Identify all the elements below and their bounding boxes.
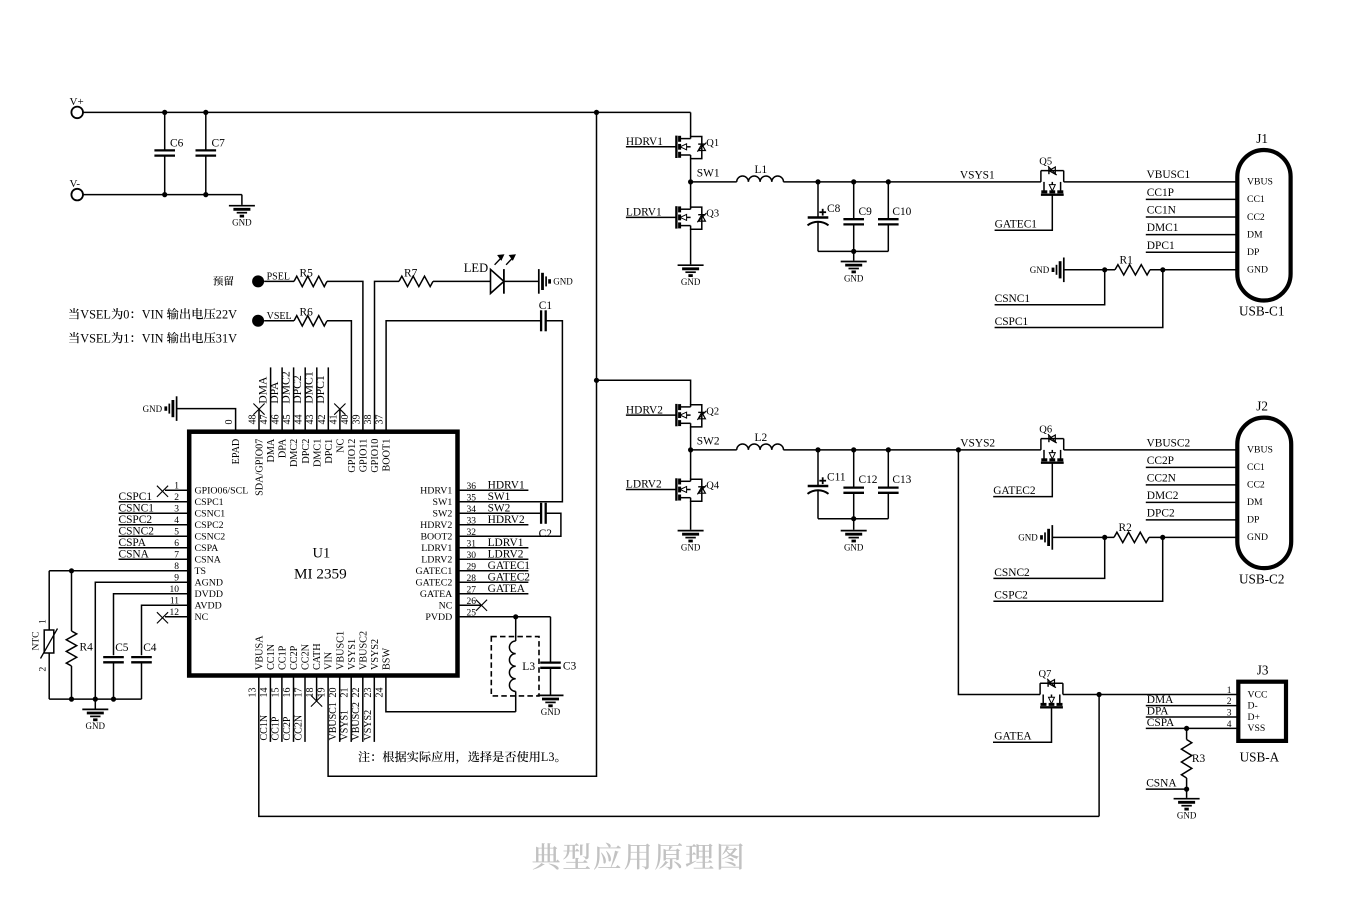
svg-text:41: 41 <box>328 415 339 425</box>
text VSEL note line2 <box>69 332 79 343</box>
IC U1 inner pin names bottom <box>254 631 392 670</box>
wire/net LDRV1 pin 31 <box>458 537 529 549</box>
wire R7 to LED <box>433 280 491 282</box>
wire/net DPA to J3 <box>1146 706 1239 718</box>
ground (LED) <box>539 269 573 294</box>
ground (EPAD) <box>143 396 177 421</box>
wire Q6 gate GATEC2 <box>993 463 1052 497</box>
svg-text:VIN: VIN <box>142 331 164 345</box>
svg-text:GND: GND <box>541 707 561 717</box>
wire/net GATEC2 pin 28 <box>458 572 531 584</box>
ground (J2 GND net) <box>1018 525 1052 550</box>
wire/net CSNA pin 7 <box>119 548 190 560</box>
svg-text:VSYS1: VSYS1 <box>960 169 995 181</box>
pin 26 NC stub with no-connect X <box>458 600 488 611</box>
svg-text:22V: 22V <box>216 307 237 321</box>
svg-text:VSEL: VSEL <box>80 307 111 321</box>
svg-text:Q7: Q7 <box>1039 669 1052 680</box>
svg-text:DPA: DPA <box>278 438 289 458</box>
wire LED to ground <box>504 280 539 282</box>
svg-text:BOOT2: BOOT2 <box>420 532 452 543</box>
ground (input filter) <box>229 195 255 228</box>
svg-text:HDRV1: HDRV1 <box>626 136 663 148</box>
svg-text:SW1: SW1 <box>488 491 511 503</box>
svg-text:CC1P: CC1P <box>270 716 281 740</box>
connector J2 USB-C2 <box>1237 399 1291 587</box>
svg-text:47: 47 <box>259 415 270 425</box>
svg-text:10: 10 <box>170 585 180 595</box>
svg-text:11: 11 <box>170 597 179 607</box>
transistor Q6 load switch <box>1039 424 1063 462</box>
wire Q1 source to SW1 <box>690 159 692 182</box>
svg-text:Q5: Q5 <box>1039 156 1052 167</box>
svg-text:VBUSC2: VBUSC2 <box>351 702 362 740</box>
svg-text:18: 18 <box>305 688 316 698</box>
svg-text:CSNC1: CSNC1 <box>119 502 155 514</box>
svg-text:C1: C1 <box>539 300 553 312</box>
node junction <box>886 179 891 184</box>
connector J1 USB-C1 <box>1237 131 1290 319</box>
svg-text:26: 26 <box>467 597 477 607</box>
svg-text:36: 36 <box>467 482 477 492</box>
wire V+ to Q1 drain <box>690 112 692 136</box>
svg-text:CC2P: CC2P <box>282 716 293 740</box>
svg-text:LDRV2: LDRV2 <box>421 555 452 566</box>
svg-text:J1: J1 <box>1256 131 1268 146</box>
wire V- rail <box>83 194 242 196</box>
wire TS pin 8 <box>49 570 189 572</box>
IC U1 inner pin names right <box>416 486 454 624</box>
svg-text:1: 1 <box>123 331 129 345</box>
svg-text:GATEA: GATEA <box>994 731 1032 743</box>
capacitor C4 <box>131 642 157 699</box>
wire/net CSPC1 pin 2 <box>119 491 190 503</box>
inductor L1 <box>737 164 784 182</box>
svg-text:CC1N: CC1N <box>1147 205 1176 217</box>
svg-text:C10: C10 <box>892 206 911 218</box>
svg-text:42: 42 <box>317 415 328 425</box>
svg-text:GATEC1: GATEC1 <box>416 566 453 577</box>
svg-text:SW2: SW2 <box>433 509 453 520</box>
svg-text:CSPC2: CSPC2 <box>119 514 153 526</box>
resistor R5 <box>294 267 327 286</box>
svg-text:CATH: CATH <box>312 643 323 670</box>
text title 典型应用原理图 <box>532 843 559 869</box>
svg-text:Q3: Q3 <box>706 209 719 220</box>
svg-text:4: 4 <box>174 516 179 526</box>
svg-text:R5: R5 <box>300 267 314 279</box>
svg-text:NC: NC <box>195 612 209 623</box>
svg-text:VSYS2: VSYS2 <box>960 437 995 449</box>
svg-text:TS: TS <box>195 566 207 577</box>
svg-text:33: 33 <box>467 516 477 526</box>
wire VBUSC1 to J1 <box>1064 181 1238 183</box>
svg-text:12: 12 <box>170 608 180 618</box>
wire R1 to J1 GND <box>1150 269 1237 271</box>
svg-text:CSPC2: CSPC2 <box>195 520 224 531</box>
svg-text:GATEC1: GATEC1 <box>995 219 1038 231</box>
svg-text:CSPA: CSPA <box>119 537 147 549</box>
node SW1 <box>688 167 720 184</box>
wire/net DMC2 pin 45 <box>279 367 293 431</box>
svg-text:45: 45 <box>282 415 293 425</box>
svg-text:DMC1: DMC1 <box>1147 222 1179 234</box>
terminal V+ <box>70 96 84 118</box>
wire VSEL to R6 <box>264 320 294 322</box>
pin 18 CATH stub with no-connect X <box>311 676 322 707</box>
wire pin38 to R7 <box>375 281 400 431</box>
text 预留 <box>213 276 223 286</box>
svg-text:DPC2: DPC2 <box>1147 508 1175 520</box>
wire/net CC1N pin 14 <box>259 676 271 742</box>
svg-text:USB-C2: USB-C2 <box>1239 572 1284 587</box>
capacitor C2 <box>539 503 553 540</box>
svg-text:43: 43 <box>305 415 316 425</box>
svg-text:1: 1 <box>1227 686 1232 696</box>
node: junction dots C6 <box>162 110 167 115</box>
svg-text:DPA: DPA <box>1147 706 1170 718</box>
wire/net CSNC1 <box>995 270 1105 305</box>
connector J3 USB-A <box>1227 662 1286 764</box>
pin 41 NC stub with no-connect X <box>334 404 345 432</box>
wire/net DMA pin 47 <box>256 367 270 431</box>
svg-text:GATEA: GATEA <box>488 583 526 595</box>
wire VBUSA pin 13 <box>259 676 1099 817</box>
svg-text:GATEC2: GATEC2 <box>416 578 453 589</box>
svg-text:LED: LED <box>464 261 488 275</box>
wire AVDD pin 11 <box>142 605 190 655</box>
wire/net CC2N to J2 <box>1146 473 1238 485</box>
transistor Q7 load switch <box>1039 669 1063 707</box>
wire/net DMC1 to J1 <box>1146 222 1238 234</box>
wire R2 to J2 GND <box>1149 536 1237 538</box>
svg-text:31V: 31V <box>216 331 237 345</box>
svg-text:DMC2: DMC2 <box>1147 490 1179 502</box>
wire/net CC2N pin 17 <box>294 676 306 742</box>
svg-text:1: 1 <box>174 482 179 492</box>
svg-text:C6: C6 <box>170 138 184 150</box>
svg-text:22: 22 <box>351 688 362 698</box>
node VSEL <box>252 311 292 327</box>
svg-text:40: 40 <box>340 415 351 425</box>
node SW2 <box>688 435 720 452</box>
svg-text:VCC: VCC <box>1248 689 1268 700</box>
svg-text:VBUSA: VBUSA <box>254 635 265 670</box>
ground (J1 GND net) <box>1030 258 1064 283</box>
wire VBUSA riser <box>1098 695 1100 817</box>
svg-text:19: 19 <box>317 688 328 698</box>
svg-text:24: 24 <box>374 688 385 698</box>
svg-text:VIN: VIN <box>142 307 164 321</box>
svg-text:VSEL: VSEL <box>80 331 111 345</box>
svg-text:R3: R3 <box>1192 753 1206 765</box>
svg-text:CC1P: CC1P <box>278 645 289 670</box>
wire C2 to BOOT2 pin32 <box>458 513 561 536</box>
wire/net GATEC1 pin 29 <box>458 560 531 572</box>
wire SW2 to L2 <box>691 449 737 451</box>
resistor R6 <box>294 307 327 326</box>
wire/net CSNA <box>1146 778 1189 792</box>
wire/net CSNC2 pin 5 <box>119 525 190 537</box>
svg-text:DPC1: DPC1 <box>324 439 335 464</box>
capacitor C12 <box>843 450 877 519</box>
text note about L3 <box>358 751 369 762</box>
wire L2 to VSYS2 rail <box>783 449 1041 451</box>
transistor Q1 <box>626 136 677 148</box>
node junction R4 <box>69 568 74 573</box>
wire VBUSC2 to J2 <box>1064 449 1238 451</box>
svg-text:30: 30 <box>467 551 477 561</box>
svg-text:HDRV2: HDRV2 <box>488 514 525 526</box>
wire/net CSPC1 <box>995 270 1163 328</box>
svg-text:29: 29 <box>467 562 477 572</box>
text VSEL note line1 <box>69 308 79 319</box>
capacitor C13 <box>878 450 912 519</box>
svg-text:CC1N: CC1N <box>266 643 277 670</box>
wire/net CSPC2 pin 4 <box>119 514 190 526</box>
svg-text:GND: GND <box>1030 265 1050 275</box>
svg-text:C11: C11 <box>827 471 846 483</box>
svg-text:GND: GND <box>143 404 163 414</box>
svg-text:28: 28 <box>467 574 477 584</box>
svg-text:BOOT1: BOOT1 <box>382 439 393 472</box>
wire DVDD pin 10 <box>114 594 190 655</box>
svg-text:NC: NC <box>439 601 453 612</box>
wire/net SW2 pin 34 <box>488 503 511 515</box>
svg-text:17: 17 <box>294 688 305 698</box>
svg-text:34: 34 <box>467 505 477 515</box>
wire/net VBUSC2 pin 22 <box>351 676 363 742</box>
capacitor C11 <box>808 450 846 519</box>
wire/net DPC1 to J1 <box>1146 240 1238 252</box>
svg-text:C3: C3 <box>563 661 577 673</box>
svg-text:LDRV1: LDRV1 <box>421 543 452 554</box>
svg-text:CC2P: CC2P <box>289 645 300 670</box>
svg-text:VSS: VSS <box>1248 723 1266 734</box>
svg-text:48: 48 <box>248 415 259 425</box>
wire/net DPC1 pin 42 <box>314 367 328 431</box>
svg-text:GATEC2: GATEC2 <box>488 572 531 584</box>
svg-text:DPC1: DPC1 <box>314 375 327 404</box>
wire output cap ground rail ch1 <box>818 250 888 252</box>
LED D1 <box>464 255 515 294</box>
svg-text:C5: C5 <box>115 642 129 654</box>
node: junction dots C7 <box>203 110 208 115</box>
wire VSYS2 down to Q7 <box>958 450 1040 695</box>
svg-text:GPIO10: GPIO10 <box>370 439 381 473</box>
svg-text:VBUS: VBUS <box>1247 445 1273 456</box>
svg-text:R6: R6 <box>300 307 314 319</box>
wire/net DPC2 to J2 <box>1146 508 1238 520</box>
node junction <box>851 179 856 184</box>
resistor R3 <box>1181 726 1205 789</box>
svg-text:LDRV1: LDRV1 <box>626 207 662 219</box>
wire/net HDRV2 pin 33 <box>458 514 529 526</box>
svg-text:38: 38 <box>363 415 374 425</box>
capacitor C8 <box>808 182 841 252</box>
svg-text:Q4: Q4 <box>706 481 720 492</box>
node junction <box>93 697 98 702</box>
wire output cap ground rail ch2 <box>818 518 888 520</box>
ground (analog) <box>82 699 108 731</box>
svg-text:LDRV2: LDRV2 <box>488 549 524 561</box>
wire/net CC1P to J1 <box>1146 187 1238 199</box>
wire/net CSPA to J3 <box>1146 717 1239 729</box>
svg-text:GND: GND <box>1177 811 1197 821</box>
svg-text:GND: GND <box>844 542 864 552</box>
svg-text:D+: D+ <box>1248 712 1260 723</box>
svg-text:35: 35 <box>467 493 477 503</box>
wire pin37 to C1 <box>386 321 541 432</box>
svg-text:31: 31 <box>467 539 477 549</box>
svg-text:DMA: DMA <box>266 438 277 462</box>
wire/net GATEA pin 27 <box>458 583 529 595</box>
svg-text:0: 0 <box>224 420 235 425</box>
IC U1 inner pin names left <box>195 486 249 624</box>
wire V+ branch to Q2 drain <box>597 380 691 405</box>
pin 12 NC stub with no-connect X <box>157 612 189 623</box>
ground (R3/CSNA) <box>1174 789 1200 820</box>
svg-text:CC1P: CC1P <box>1147 187 1174 199</box>
svg-text:C13: C13 <box>892 474 911 486</box>
IC U1 MI2359 <box>189 432 457 676</box>
svg-text:DPC2: DPC2 <box>301 439 312 464</box>
svg-text:CSPC1: CSPC1 <box>195 497 224 508</box>
node junction <box>851 249 856 254</box>
wire/net VSYS1 pin 21 <box>340 676 352 742</box>
svg-text:GND: GND <box>86 721 106 731</box>
svg-text:VSYS2: VSYS2 <box>363 710 374 741</box>
svg-text:C9: C9 <box>859 206 873 218</box>
wire SW1 to L1 <box>691 181 737 183</box>
svg-text:CSNC2: CSNC2 <box>119 525 155 537</box>
svg-text:EPAD: EPAD <box>231 439 242 465</box>
svg-text:37: 37 <box>375 415 386 425</box>
svg-text:27: 27 <box>467 585 477 595</box>
wire SW2 to Q4 drain <box>690 450 692 480</box>
wire ground to R1 <box>1064 269 1115 271</box>
svg-text:R2: R2 <box>1119 522 1133 534</box>
svg-text:0: 0 <box>123 307 129 321</box>
wire AGND pin 9 <box>95 582 189 699</box>
svg-text:21: 21 <box>340 688 351 698</box>
node junction <box>851 447 856 452</box>
svg-text:GATEA: GATEA <box>420 589 453 600</box>
transistor Q4 <box>626 479 677 491</box>
svg-text:CSNC2: CSNC2 <box>994 567 1030 579</box>
svg-text:AVDD: AVDD <box>195 601 222 612</box>
terminal V- <box>70 178 83 200</box>
pin 0 EPAD to ground <box>177 409 236 432</box>
pin 1 GPIO06/SCL stub with no-connect X <box>157 486 189 497</box>
ground (Q3) <box>678 265 704 287</box>
wire/net CC2P to J2 <box>1146 455 1238 467</box>
svg-text:CSPC1: CSPC1 <box>995 316 1029 328</box>
node PSEL <box>252 272 290 288</box>
svg-text:2: 2 <box>39 667 49 672</box>
svg-text:GATEC1: GATEC1 <box>488 560 531 572</box>
wire Q2 source to SW2 <box>690 427 692 450</box>
svg-text:Q6: Q6 <box>1039 424 1052 435</box>
svg-text:2: 2 <box>174 493 179 503</box>
svg-text:L3: L3 <box>522 661 535 673</box>
capacitor C7 <box>196 112 226 194</box>
svg-text:Q2: Q2 <box>706 406 719 417</box>
svg-text:44: 44 <box>294 415 305 425</box>
svg-text:HDRV2: HDRV2 <box>626 404 663 416</box>
svg-text:23: 23 <box>363 688 374 698</box>
wire/net LDRV2 pin 30 <box>458 549 529 561</box>
svg-text:15: 15 <box>270 688 281 698</box>
svg-text:46: 46 <box>271 415 282 425</box>
svg-text:CSNC1: CSNC1 <box>195 509 226 520</box>
inductor L3 (optional, dashed box) <box>491 617 539 712</box>
svg-text:GND: GND <box>1018 533 1038 543</box>
wire ground to R2 <box>1052 536 1114 538</box>
svg-text:14: 14 <box>259 688 270 698</box>
capacitor C10 <box>878 182 912 252</box>
wire/net CSPA pin 6 <box>119 537 190 549</box>
svg-text:CC2N: CC2N <box>1147 473 1176 485</box>
svg-text:C7: C7 <box>212 138 226 150</box>
svg-text:SDA/GPIO07: SDA/GPIO07 <box>255 439 266 496</box>
svg-text:R1: R1 <box>1120 254 1134 266</box>
svg-text:SW1: SW1 <box>697 167 720 179</box>
resistor R1 <box>1115 254 1150 275</box>
svg-text:GND: GND <box>681 277 701 287</box>
svg-text:C2: C2 <box>539 528 553 540</box>
svg-text:HDRV1: HDRV1 <box>488 480 525 492</box>
capacitor C5 <box>103 642 129 699</box>
wire/net SW1 pin 35 <box>488 491 511 503</box>
svg-text:GPIO11: GPIO11 <box>359 439 370 473</box>
wire pin34 to C2 <box>458 512 542 514</box>
svg-text:SW2: SW2 <box>488 503 511 515</box>
wire/net VBUSC1 pin 20 <box>328 676 340 742</box>
svg-text:R4: R4 <box>80 642 94 654</box>
svg-text:CC2N: CC2N <box>301 643 312 670</box>
svg-text:SW2: SW2 <box>697 435 720 447</box>
capacitor C3 <box>540 617 576 695</box>
svg-text:VBUSC1: VBUSC1 <box>1147 169 1191 181</box>
svg-text:DMC2: DMC2 <box>289 439 300 467</box>
svg-text:J3: J3 <box>1257 662 1269 677</box>
resistor R4 <box>66 571 93 699</box>
svg-text:VSYS1: VSYS1 <box>340 710 351 741</box>
svg-text:USB-C1: USB-C1 <box>1239 304 1284 319</box>
wire/net DMA to J3 <box>1146 694 1239 706</box>
svg-text:R7: R7 <box>404 267 418 279</box>
svg-text:GND: GND <box>232 218 252 228</box>
inductor L2 <box>737 432 784 450</box>
resistor R7 <box>399 267 433 286</box>
svg-text:CSPC1: CSPC1 <box>119 491 153 503</box>
wire PSEL to R5 <box>264 280 294 282</box>
wire/net DMC2 to J2 <box>1146 490 1238 502</box>
wire Q7 to J3 VCC <box>1063 694 1238 696</box>
svg-text:CC2N: CC2N <box>294 715 305 741</box>
wire R5 to pin39 <box>327 281 363 431</box>
svg-text:GPIO06/SCL: GPIO06/SCL <box>195 486 249 497</box>
ground (C3) <box>538 695 564 717</box>
ground (Q4) <box>678 531 704 553</box>
svg-text:LDRV1: LDRV1 <box>488 537 524 549</box>
svg-text:GATEC2: GATEC2 <box>993 485 1036 497</box>
svg-text:C4: C4 <box>143 642 157 654</box>
svg-text:DM: DM <box>1247 497 1263 508</box>
ground (ch1 output) <box>841 251 867 283</box>
svg-text:VBUSC2: VBUSC2 <box>358 631 369 670</box>
